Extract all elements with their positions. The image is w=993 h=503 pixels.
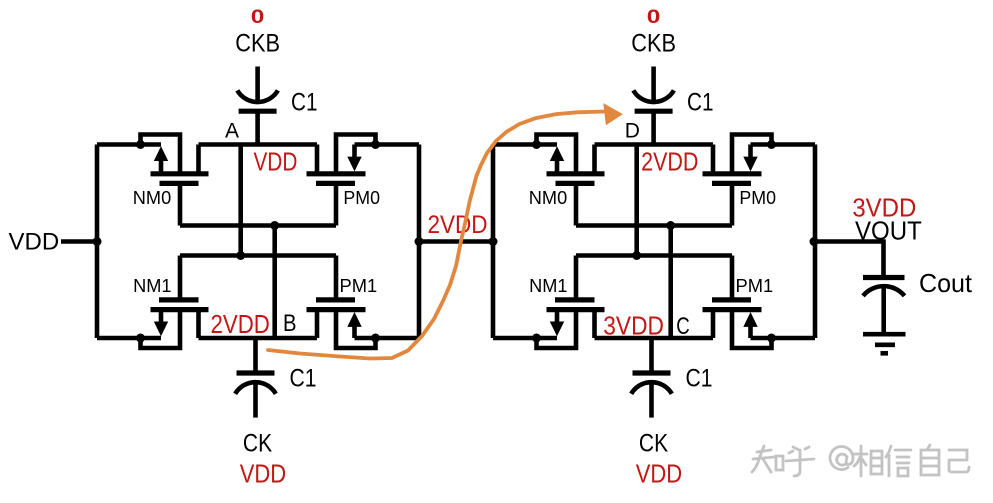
transistor NM0 source arrow (stage 2) [550, 146, 564, 161]
junction NM0 source-bulk (stage 1) [136, 140, 145, 149]
junction stage2 output rail [810, 237, 819, 246]
wire VOUT output [814, 242, 884, 276]
wire rail to NM1 source (stage 1) [97, 336, 161, 341]
svg-text:VDD: VDD [240, 459, 286, 489]
transistor PM0 gate bar (stage 1) [316, 181, 355, 186]
junction node B on upper gate wire (stage 1) [270, 221, 279, 230]
transistor PM0 gate lead (stage 2) [730, 183, 735, 225]
wire node C vertical to upper gates (stage 2) [668, 226, 673, 339]
transistor PM1 drain stub (stage 2) [711, 310, 716, 338]
transistor NM1 bulk loop (stage 1) [141, 310, 181, 348]
ground symbol bar 3 [881, 351, 889, 356]
watermark glyph ji [949, 450, 969, 472]
transistor NM1 gate lead (stage 1) [178, 256, 183, 300]
transistor NM1 drain stub (stage 2) [592, 310, 597, 338]
capacitor C1 bottom flat plate (stage 1) [237, 370, 275, 375]
transistor PM0 source arrow (stage 2) [743, 157, 757, 172]
transistor PM1 source stub (stage 2) [748, 325, 753, 338]
transistor NM1 source stub (stage 1) [159, 310, 164, 323]
capacitor C1 top flat plate (stage 2) [635, 109, 673, 114]
svg-text:C: C [676, 313, 690, 340]
wire inter-stage 2VDD [419, 239, 493, 244]
capacitor C1 top flat plate (stage 1) [239, 109, 277, 114]
wire VDD input [61, 239, 97, 244]
transistor NM0 source stub (stage 1) [159, 160, 164, 174]
transistor NM1 gate lead (stage 2) [574, 256, 579, 300]
transistor NM1 source arrow (stage 2) [550, 322, 564, 337]
capacitor C1 bottom curved plate (stage 2) [631, 382, 672, 394]
junction PM0 source-bulk (stage 2) [767, 140, 776, 149]
annotation orange arrowhead at node D [603, 103, 623, 125]
transistor NM0 drain stub (stage 2) [592, 145, 597, 174]
junction node A on lower gate wire (stage 1) [236, 251, 245, 260]
watermark glyph xiang [854, 446, 867, 476]
svg-text:VDD: VDD [9, 229, 60, 256]
capacitor Cout flat plate [863, 275, 905, 280]
svg-text:PM0: PM0 [739, 187, 776, 208]
wire rail to NM0 source (stage 1) [97, 142, 161, 147]
transistor PM0 drain stub (stage 1) [315, 145, 320, 174]
junction stage2 input rail [489, 237, 498, 246]
capacitor Cout lead to ground [881, 286, 886, 332]
wire upper gate cross-couple (stage 1) [180, 223, 336, 228]
wire PM0 source to rail (stage 2) [751, 142, 816, 147]
transistor PM0 drain stub (stage 2) [711, 145, 716, 174]
junction node C on upper gate wire (stage 2) [666, 221, 675, 230]
watermark glyph zhi [752, 446, 774, 472]
svg-text:PM1: PM1 [340, 275, 378, 296]
svg-text:C1: C1 [687, 89, 714, 117]
svg-text:CKB: CKB [235, 30, 280, 58]
wire rail to NM0 source (stage 2) [493, 142, 557, 147]
transistor PM0 bulk loop (stage 2) [732, 135, 772, 174]
svg-text:D: D [625, 120, 640, 143]
svg-text:Cout: Cout [919, 268, 973, 298]
wire lower gate cross-couple (stage 1) [180, 253, 336, 258]
junction PM1 source-bulk (stage 1) [371, 334, 380, 343]
ground symbol bar 2 [875, 342, 895, 347]
wire node D vertical to lower gates (stage 2) [634, 145, 639, 256]
svg-text:CK: CK [243, 430, 272, 458]
transistor PM0 source stub (stage 2) [748, 145, 753, 158]
transistor PM1 gate lead (stage 2) [730, 256, 735, 300]
wire left rail (stage 2) [491, 145, 496, 339]
transistor NM0 channel bar (stage 2) [547, 171, 605, 176]
svg-text:2VDD: 2VDD [211, 309, 270, 339]
watermark glyph hu [786, 447, 814, 476]
capacitor C1 bottom lead to CK (stage 2) [649, 383, 654, 418]
transistor NM1 gate bar (stage 2) [555, 297, 595, 302]
transistor NM1 channel bar (stage 2) [547, 307, 605, 312]
wire right rail (stage 2) [813, 145, 818, 339]
transistor PM0 gate bar (stage 2) [712, 181, 751, 186]
capacitor C1 bottom lead to CK (stage 1) [253, 383, 258, 418]
capacitor C1 bottom lead from node C (stage 2) [649, 338, 654, 373]
transistor PM1 gate bar (stage 2) [712, 297, 751, 302]
capacitor C1 top curved plate (stage 1) [237, 90, 278, 102]
wire rail to NM1 source (stage 2) [493, 336, 557, 341]
transistor PM1 gate bar (stage 1) [316, 297, 355, 302]
transistor PM1 drain stub (stage 1) [315, 310, 320, 338]
transistor NM1 gate bar (stage 1) [159, 297, 199, 302]
wire node A vertical to lower gates (stage 1) [238, 145, 243, 256]
svg-text:CK: CK [639, 430, 668, 458]
svg-text:VDD: VDD [253, 147, 297, 177]
capacitor C1 top lead from CKB (stage 1) [255, 67, 260, 102]
transistor NM1 drain stub (stage 1) [196, 310, 201, 338]
junction NM0 source-bulk (stage 2) [532, 140, 541, 149]
capacitor C1 bottom lead from node B (stage 1) [253, 338, 258, 373]
svg-text:2VDD: 2VDD [641, 147, 698, 177]
transistor PM1 source arrow (stage 2) [743, 312, 757, 327]
wire right rail (stage 1) [417, 145, 422, 339]
svg-text:VOUT: VOUT [855, 216, 922, 246]
svg-text:3VDD: 3VDD [603, 311, 664, 341]
transistor PM1 source stub (stage 1) [352, 325, 357, 338]
transistor PM1 channel bar (stage 1) [307, 307, 366, 312]
watermark glyph zi [921, 445, 939, 475]
capacitor C1 top curved plate (stage 2) [633, 90, 674, 102]
transistor PM0 bulk loop (stage 1) [336, 135, 376, 174]
transistor PM1 bulk loop (stage 2) [732, 310, 772, 348]
wire PM0 source to rail (stage 1) [355, 142, 420, 147]
svg-text:NM0: NM0 [529, 187, 567, 208]
junction NM1 source-bulk (stage 2) [532, 334, 541, 343]
capacitor C1 top lead to node (stage 2) [651, 111, 656, 144]
transistor NM0 gate lead (stage 1) [178, 183, 183, 225]
wire node B horizontal (stage 1) [199, 336, 318, 341]
transistor PM1 source arrow (stage 1) [347, 312, 361, 327]
junction stage1 output rail [415, 237, 424, 246]
wire node C horizontal (stage 2) [595, 336, 714, 341]
wire upper gate cross-couple (stage 2) [576, 223, 732, 228]
svg-text:C1: C1 [686, 365, 713, 393]
svg-text:NM0: NM0 [133, 187, 171, 208]
junction VDD input on left rail [93, 237, 102, 246]
svg-text:C1: C1 [290, 365, 317, 393]
junction node D on lower gate wire (stage 2) [632, 251, 641, 260]
watermark glyph at-sign [830, 447, 853, 470]
transistor NM0 channel bar (stage 1) [151, 171, 209, 176]
transistor NM0 gate bar (stage 2) [556, 181, 595, 186]
svg-text:0: 0 [647, 6, 661, 28]
capacitor Cout curved plate [863, 286, 905, 296]
wire node B vertical to upper gates (stage 1) [272, 226, 277, 339]
wire node A horizontal (stage 1) [199, 142, 318, 147]
svg-text:A: A [225, 120, 239, 143]
svg-text:PM1: PM1 [736, 275, 774, 296]
transistor NM0 source stub (stage 2) [555, 160, 560, 174]
transistor PM0 gate lead (stage 1) [334, 183, 339, 225]
svg-text:2VDD: 2VDD [427, 211, 487, 239]
wire left rail (stage 1) [95, 145, 100, 339]
transistor PM0 channel bar (stage 2) [703, 171, 762, 176]
wire lower gate cross-couple (stage 2) [576, 253, 732, 258]
wire PM1 source to rail (stage 1) [355, 336, 420, 341]
svg-text:VDD: VDD [636, 459, 682, 489]
transistor NM0 gate bar (stage 1) [160, 181, 199, 186]
junction PM1 source-bulk (stage 2) [767, 334, 776, 343]
watermark glyph xin [886, 446, 911, 476]
transistor PM0 channel bar (stage 1) [307, 171, 366, 176]
transistor NM0 gate lead (stage 2) [574, 183, 579, 225]
capacitor C1 bottom curved plate (stage 1) [235, 382, 276, 394]
svg-text:NM1: NM1 [529, 275, 567, 296]
transistor NM0 source arrow (stage 1) [154, 146, 168, 161]
svg-text:CKB: CKB [631, 30, 676, 58]
transistor PM1 bulk loop (stage 1) [336, 310, 376, 348]
transistor PM0 source stub (stage 1) [352, 145, 357, 158]
transistor NM0 bulk loop (stage 2) [537, 135, 577, 174]
capacitor C1 top lead to node (stage 1) [255, 111, 260, 144]
transistor NM0 bulk loop (stage 1) [141, 135, 181, 174]
transistor PM0 source arrow (stage 1) [347, 157, 361, 172]
transistor PM1 gate lead (stage 1) [334, 256, 339, 300]
wire PM1 source to rail (stage 2) [751, 336, 816, 341]
transistor NM1 channel bar (stage 1) [151, 307, 209, 312]
svg-text:PM0: PM0 [343, 187, 380, 208]
svg-text:B: B [283, 310, 297, 337]
transistor NM1 bulk loop (stage 2) [537, 310, 577, 348]
transistor NM1 source stub (stage 2) [555, 310, 560, 323]
ground symbol bar 1 [863, 332, 906, 337]
transistor NM0 drain stub (stage 1) [196, 145, 201, 174]
transistor NM1 source arrow (stage 1) [154, 322, 168, 337]
svg-text:C1: C1 [291, 89, 318, 117]
junction NM1 source-bulk (stage 1) [136, 334, 145, 343]
capacitor C1 top lead from CKB (stage 2) [651, 67, 656, 102]
annotation orange curve from node B to node D [268, 112, 605, 359]
transistor PM1 channel bar (stage 2) [703, 307, 762, 312]
wire node D horizontal (stage 2) [595, 142, 714, 147]
svg-text:NM1: NM1 [133, 275, 171, 296]
junction PM0 source-bulk (stage 1) [371, 140, 380, 149]
capacitor C1 bottom flat plate (stage 2) [633, 370, 671, 375]
svg-text:0: 0 [251, 6, 265, 28]
